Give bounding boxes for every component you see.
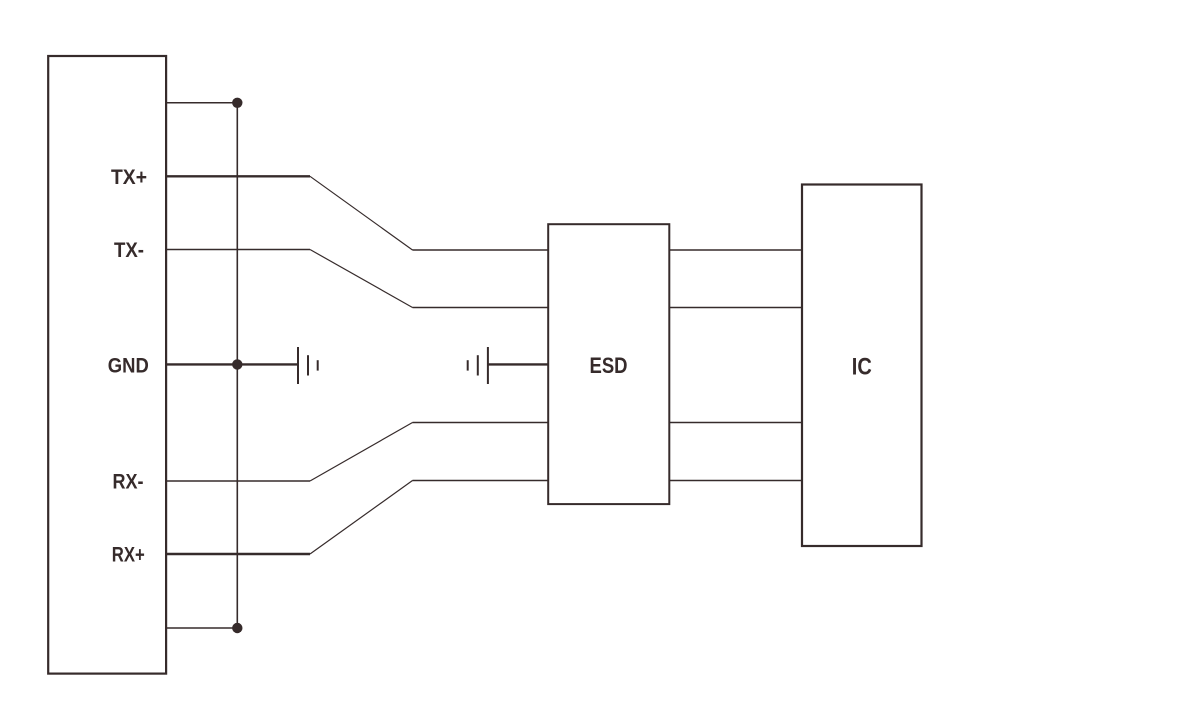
connector J1 (left tall box) (48, 56, 166, 674)
svg-text:RX+: RX+ (112, 544, 145, 567)
wire ESD to IC line 1 (669, 249, 802, 251)
wire ESD to IC line 3 (669, 422, 802, 424)
wire TX+ diagonal (310, 176, 413, 250)
node junction dot bottom (232, 623, 242, 633)
wire ESD to IC line 4 (669, 480, 802, 482)
svg-text:ESD: ESD (590, 353, 628, 378)
wire TX- to ESD (413, 307, 549, 309)
wire vertical bus (236, 103, 238, 628)
IC box U2 (802, 185, 922, 547)
wire bottom pin to bus junction (166, 627, 237, 629)
svg-text:IC: IC (852, 354, 872, 381)
svg-text:RX-: RX- (113, 471, 144, 494)
node junction dot top (232, 98, 242, 108)
wire RX- diagonal (310, 423, 413, 482)
ground symbol left (rotated, bars facing right) (298, 347, 318, 384)
wire RX+ to ESD (413, 480, 549, 482)
svg-text:TX-: TX- (114, 239, 144, 262)
wire RX- pin segment (166, 480, 310, 482)
ground symbol right (rotated, bars facing left) (468, 347, 488, 384)
svg-text:GND: GND (108, 355, 149, 378)
wire ground to ESD (thick) (488, 363, 548, 365)
node junction dot GND (232, 359, 242, 369)
wire TX+ pin segment (thick) (166, 175, 310, 177)
wire GND pin segment (thick) (166, 363, 298, 365)
wire RX- to ESD (413, 422, 549, 424)
wire RX+ pin segment (thick) (166, 553, 310, 555)
wire TX- pin segment (166, 249, 310, 251)
wire TX- diagonal (310, 250, 413, 308)
wire TX+ to ESD (413, 249, 549, 251)
wire top pin to bus junction (166, 102, 237, 104)
ESD protection box U1 (548, 224, 669, 504)
svg-text:TX+: TX+ (111, 166, 147, 189)
wire ESD to IC line 2 (669, 307, 802, 309)
wire RX+ diagonal (310, 481, 413, 555)
